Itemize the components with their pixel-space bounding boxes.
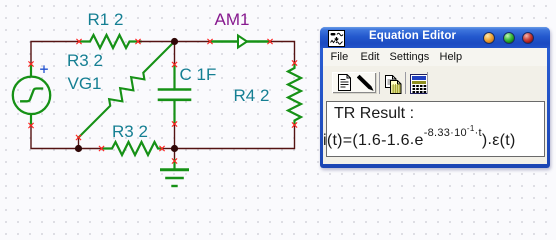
TR Result text (334, 105, 414, 123)
capacitor C (159, 65, 190, 124)
label R4 value (234, 86, 270, 106)
window face (323, 48, 547, 164)
toolbar separator 2 (405, 72, 406, 94)
titlebar button minimize (orange) (483, 32, 495, 44)
wire: top rail left segment (source to R1) (31, 42, 79, 64)
label R3 (bottom) (112, 122, 148, 142)
node A (junction bottom-left) (75, 145, 82, 152)
terminal x marks (29, 39, 297, 163)
toolbar separator 1 (379, 72, 380, 94)
label VG1 (68, 74, 102, 94)
wire: top node down to capacitor (174, 42, 176, 65)
equation i(t) (323, 131, 516, 152)
node B (junction bottom-mid) (171, 145, 178, 152)
wire: R4 to bottom-right corner and bottom rail to node (175, 125, 295, 149)
toolbar icon: copy (385, 75, 404, 95)
wire: top node to ammeter (175, 41, 211, 43)
wire: diagonal R3 terminal stub to node A (78, 138, 80, 149)
label R3 (diagonal) (67, 51, 103, 71)
wire: R3 left terminal to node A and to left corner (31, 126, 102, 149)
wire: bottom node to ground (174, 149, 176, 161)
wire: bottom node to R3 right terminal (162, 148, 175, 150)
resistor R3 (diagonal) (79, 42, 175, 138)
label R1 value (88, 10, 124, 30)
result content box (326, 101, 545, 157)
toolbar group panel (332, 72, 376, 93)
node top (junction) (171, 38, 178, 45)
ground (162, 160, 188, 186)
Equation Editor window (320, 27, 550, 168)
toolbar icon: new document (338, 74, 351, 91)
plus sign of VG1 (41, 66, 47, 72)
title text (345, 30, 480, 42)
wire: R1 to top node (138, 41, 175, 43)
title bar (320, 27, 550, 48)
toolbar separator 3 (427, 72, 428, 94)
ammeter AM1 (210, 36, 270, 48)
wire: ammeter to top-right corner and down to R4 (270, 42, 295, 64)
wire: capacitor to bottom node (174, 124, 176, 149)
resistor R4 (288, 63, 301, 126)
resistor R1 (79, 35, 141, 48)
label AM1 (215, 10, 250, 30)
toolbar icon: pencil (356, 74, 375, 92)
resistor R3 (bottom) (102, 142, 162, 155)
label C value (180, 65, 217, 85)
voltage generator VG1 (13, 64, 50, 126)
titlebar button maximize (green) (503, 32, 515, 44)
titlebar button close (red) (522, 32, 534, 44)
menu bar (323, 48, 547, 66)
window icon (328, 30, 345, 47)
toolbar icon: calculator (410, 74, 428, 94)
